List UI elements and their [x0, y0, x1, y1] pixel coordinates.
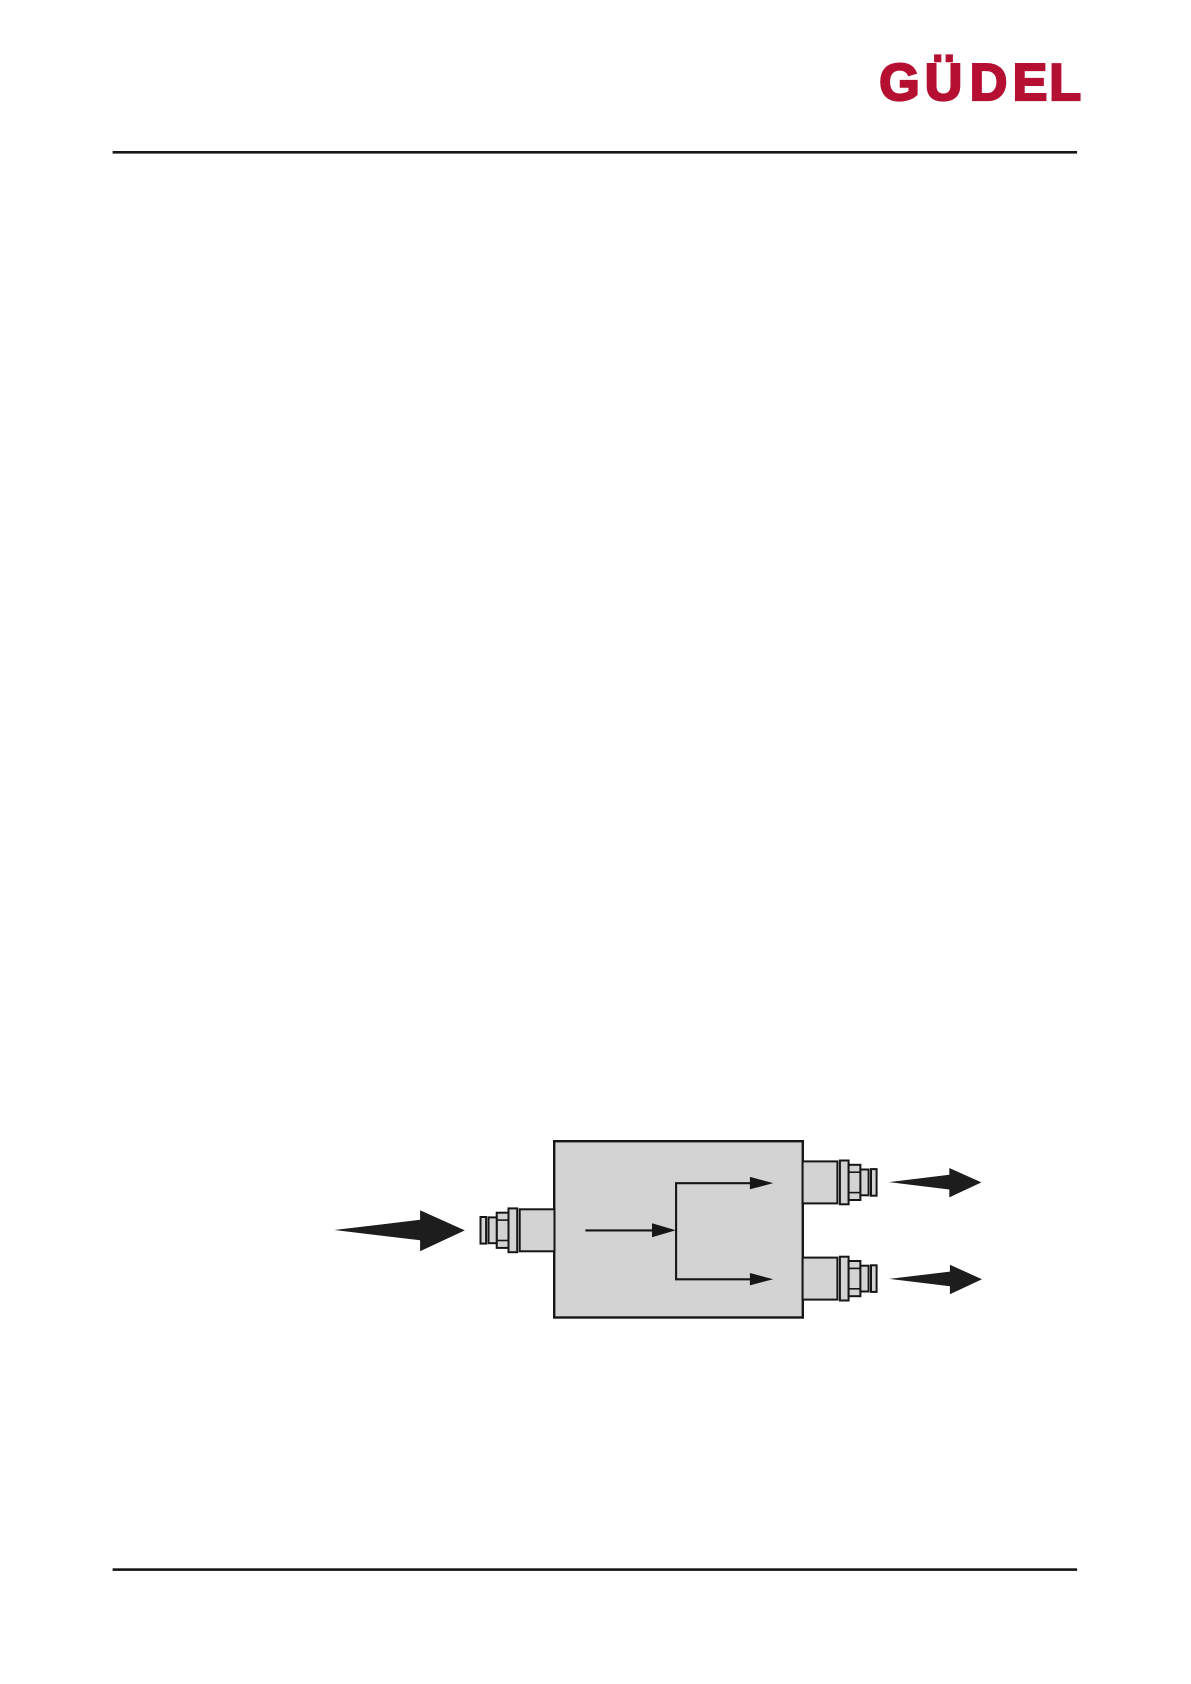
- flange: [840, 1161, 849, 1205]
- body: [520, 1209, 555, 1251]
- nut: [497, 1213, 509, 1248]
- tip: [871, 1265, 877, 1292]
- svg-text:GÜDEL: GÜDEL: [879, 54, 1081, 112]
- flow arrow input (big black arrow left): [334, 1210, 465, 1251]
- flange: [509, 1208, 518, 1252]
- footer rule: [113, 1568, 1078, 1571]
- body: [803, 1258, 838, 1300]
- wire branch top: [675, 1182, 752, 1184]
- body: [803, 1161, 838, 1203]
- distributor box: [554, 1141, 803, 1317]
- flow arrow output bottom (big black arrow bottom right): [889, 1265, 982, 1294]
- flange: [840, 1257, 849, 1301]
- arrowhead input: [652, 1223, 676, 1237]
- connector X3 (bottom right output plug): [803, 1257, 877, 1301]
- sleeve: [489, 1217, 497, 1243]
- header rule: [113, 151, 1078, 154]
- tip: [481, 1217, 487, 1244]
- wire branch bottom: [675, 1278, 752, 1280]
- arrowhead branch top: [750, 1177, 773, 1189]
- wire split vertical: [675, 1183, 677, 1279]
- arrowhead branch bottom: [750, 1273, 773, 1285]
- nut: [849, 1165, 861, 1200]
- sleeve: [860, 1266, 868, 1292]
- sleeve: [860, 1170, 868, 1196]
- tip: [871, 1169, 877, 1196]
- wire input inside box: [585, 1229, 655, 1231]
- connector X2 (top right output plug): [803, 1161, 877, 1205]
- flow arrow output top (big black arrow top right): [889, 1168, 982, 1197]
- connector X1 (left input plug): [481, 1208, 555, 1252]
- nut: [849, 1261, 861, 1296]
